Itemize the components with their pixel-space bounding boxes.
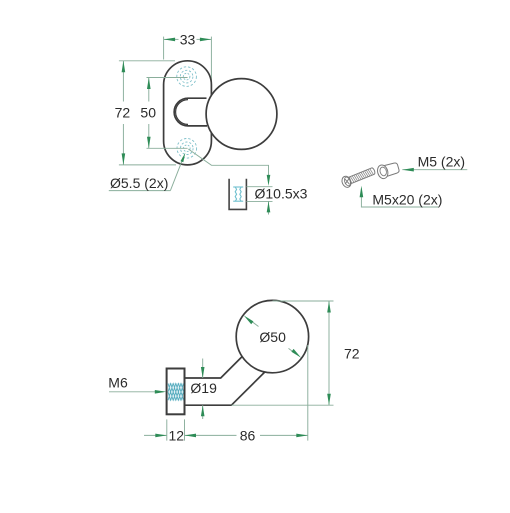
- knob ball (front view): [206, 79, 277, 150]
- neck (front view, outer arc): [174, 98, 207, 126]
- neck bottom outline: [185, 372, 265, 405]
- node: arrow 86 left: [185, 434, 197, 438]
- wire: dim diameter50 (inside ball): [249, 319, 259, 326]
- plate (rosette, front view): [164, 61, 212, 165]
- node: leader arrow at bottom hole: [181, 153, 186, 162]
- node: arrow 33 right: [200, 38, 212, 42]
- wire: dim 72 right top extension: [273, 300, 334, 302]
- svg-text:M5x20 (2x): M5x20 (2x): [372, 191, 442, 207]
- node: arrow down to neck top: [201, 367, 205, 378]
- node: arrow to upper-left of ball: [244, 315, 254, 324]
- node: arrow 86 right: [296, 434, 308, 438]
- wire: dim 50 top extension: [147, 77, 188, 79]
- node: arrow to lower-right of ball: [291, 349, 301, 358]
- svg-text:12: 12: [169, 427, 185, 443]
- neck fillet (inner arc): [176, 100, 188, 125]
- svg-text:Ø10.5x3: Ø10.5x3: [255, 185, 308, 201]
- wire: ext line ball right: [307, 345, 309, 441]
- wire: M6 leader: [109, 391, 164, 393]
- svg-text:86: 86: [240, 427, 256, 443]
- node: arrow to sleeve: [402, 168, 414, 172]
- wire: dim 50 bottom extension: [147, 147, 188, 149]
- wire: dim 50 line: [148, 78, 150, 102]
- wire: dim 72 right line: [328, 301, 330, 405]
- svg-text:Ø19: Ø19: [190, 380, 217, 396]
- wire: bushing dim line top: [246, 186, 272, 188]
- sleeve nut M5 (angled, gray): [376, 161, 400, 180]
- wire: ext line base left: [166, 419, 168, 440]
- wire: M5 leader: [402, 169, 467, 171]
- node: arrow 72 up: [122, 61, 126, 73]
- node: arrow up to neck bottom: [201, 405, 205, 416]
- wire: ext line base right: [184, 419, 186, 440]
- svg-text:72: 72: [344, 345, 360, 361]
- node: arrow 72 down: [122, 153, 126, 165]
- svg-text:Ø5.5 (2x): Ø5.5 (2x): [110, 175, 168, 191]
- screw M5x20 (angled, gray): [340, 165, 376, 188]
- node: arrow down to bushing: [267, 175, 271, 186]
- neck top outline: [185, 357, 243, 379]
- wire: bushing lower arrow tail: [268, 201, 270, 214]
- svg-text:M6: M6: [108, 375, 128, 391]
- wire: dim diameter19 lower: [202, 405, 204, 419]
- node: arrow to base: [155, 390, 167, 394]
- thread symbol in bushing: [233, 187, 243, 201]
- wire: dim 72 bottom extension: [119, 164, 176, 166]
- base plate (side view): [167, 369, 185, 415]
- bushing detail (section cup): [229, 179, 246, 210]
- node: arrow 72r down: [327, 394, 331, 406]
- knob ball (side view): [236, 300, 308, 372]
- wire: dim 72 right bottom extension: [231, 404, 333, 406]
- wire: dim diameter19 upper: [202, 359, 204, 379]
- wire: dim 33 line: [164, 38, 179, 40]
- node: arrow 12 (points right at base left): [155, 434, 167, 438]
- wire: M5x20 leader: [361, 189, 438, 208]
- wire: label underline: [109, 190, 171, 192]
- node: arrow 50 up: [147, 78, 151, 90]
- svg-text:Ø50: Ø50: [259, 329, 286, 345]
- screw hole top (dashed circles): [177, 67, 197, 87]
- wire: leader from hole to bushing detail: [188, 149, 268, 183]
- wire: dim 33 extension line right: [210, 37, 212, 84]
- wire: dim 33 extension line left: [163, 37, 165, 60]
- wire: bushing dim line bottom: [246, 200, 272, 202]
- svg-text:M5 (2x): M5 (2x): [418, 154, 465, 170]
- node: arrow 33 left: [164, 38, 176, 42]
- svg-text:33: 33: [180, 31, 196, 47]
- svg-text:50: 50: [140, 105, 156, 121]
- wire: dim 72 line: [122, 61, 124, 102]
- screw hole bottom (dashed circles): [177, 139, 197, 159]
- wire: dim 12 tail: [144, 434, 167, 436]
- node: arrow 50 down: [147, 137, 151, 149]
- svg-text:72: 72: [115, 105, 131, 121]
- node: arrow to screw: [360, 186, 364, 198]
- node: arrow up to bushing bottom dim: [267, 201, 271, 212]
- node: arrow 72r up: [327, 301, 331, 313]
- wire: dim 72 top extension: [119, 60, 175, 62]
- M6 thread section (teal hatch): [168, 383, 184, 401]
- wire: leader for hole label: [170, 160, 182, 190]
- wire: dim 86 line: [185, 434, 237, 436]
